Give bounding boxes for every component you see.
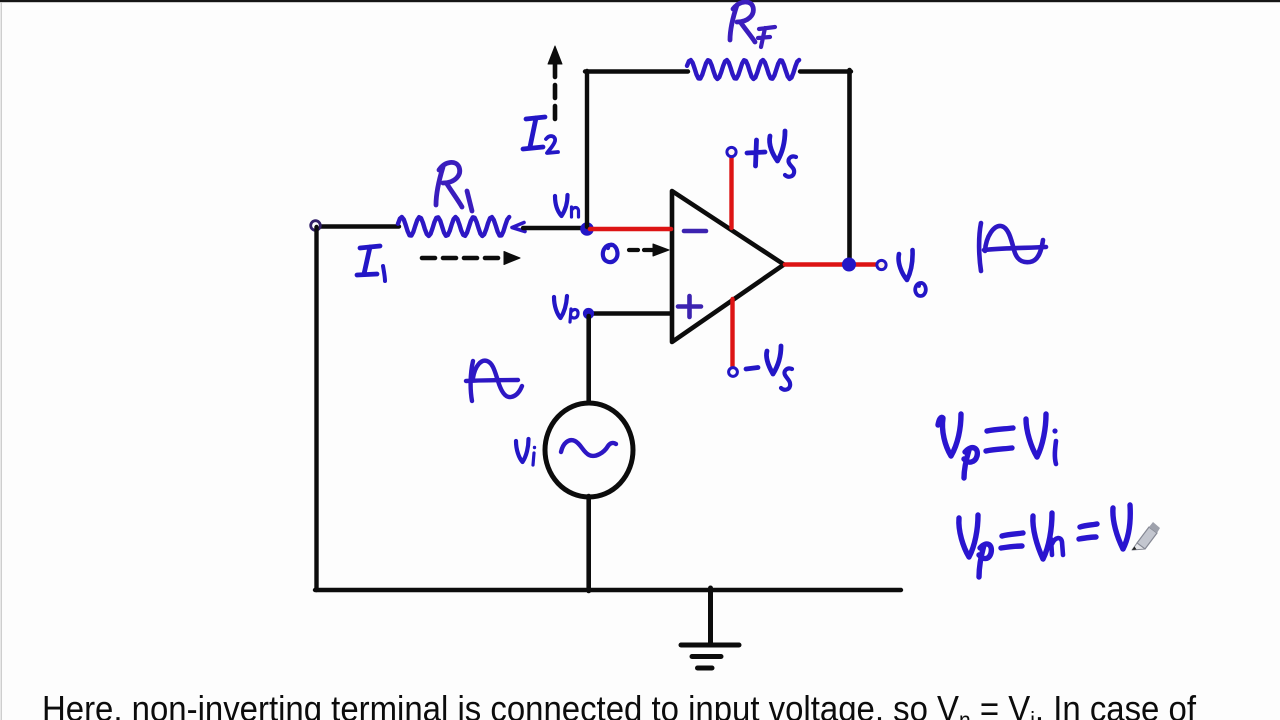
- top frame edge: [0, 0, 1280, 2]
- wire: left vertical rail: [314, 227, 318, 590]
- node Vo (solid junction dot): [842, 258, 856, 272]
- wire: R1 to node Vn: [523, 226, 585, 230]
- resistor R1 (hand-drawn squiggle): [398, 217, 509, 236]
- wire: Vn up to feedback: [585, 71, 589, 227]
- terminal Vo (open circle): [877, 260, 886, 269]
- input waveform sketch (near Vp): [466, 361, 522, 401]
- supply +Vs red lead: [729, 157, 733, 228]
- pen cursor: [1132, 522, 1160, 550]
- op-amp non-inverting input marker (plus): [678, 296, 701, 317]
- wire: red output from apex: [785, 262, 876, 267]
- ground: [681, 645, 739, 668]
- wire: Vp to non-inverting input (black): [590, 311, 671, 316]
- label -Vs: [746, 346, 792, 390]
- terminal +Vs (open circle): [727, 147, 736, 156]
- wire: right vertical down to output node: [847, 70, 852, 262]
- node A (left input terminal, open circle): [311, 221, 321, 231]
- wire: red Vn to inverting input: [590, 227, 671, 232]
- label Vp: [554, 296, 578, 322]
- wire: bottom rail: [315, 588, 901, 592]
- wire: RF to right vertical: [800, 69, 851, 73]
- virtual-zero label O: [603, 245, 618, 262]
- node Vp (solid junction dot): [583, 308, 594, 319]
- dashed current arrow I2 (upward): [548, 46, 562, 119]
- wire: feedback top left segment: [585, 69, 688, 73]
- label I1: [357, 246, 385, 281]
- resistor RF (hand-drawn squiggle): [687, 60, 799, 79]
- wire: left node to R1: [319, 224, 399, 228]
- terminal -Vs (open circle): [729, 368, 738, 377]
- ground stem: [708, 588, 713, 645]
- node Vn (solid junction dot): [580, 222, 594, 236]
- label Vo: [899, 250, 926, 296]
- wire: source bottom to ground rail: [586, 496, 591, 591]
- output waveform sketch (right): [979, 223, 1046, 271]
- label RF: [730, 2, 775, 47]
- R1 end arrowhead (blue, pointing left): [512, 223, 525, 232]
- dashed current arrow I1: [422, 252, 520, 265]
- left frame edge: [1, 2, 2, 720]
- equation Vp = Vn = V: [959, 505, 1130, 577]
- label I2: [523, 117, 558, 153]
- dashed arrow into inverting input: [629, 244, 669, 256]
- svg-text:Here, non-inverting terminal i: Here, non-inverting terminal is connecte…: [42, 688, 1197, 720]
- label R1: [436, 162, 472, 211]
- label Vi: [516, 439, 536, 465]
- op-amp inverting input marker (minus): [684, 229, 706, 234]
- op-amp U1 (triangle): [672, 191, 784, 342]
- AC tilde inside source: [561, 440, 616, 456]
- equation Vp = Vi: [938, 414, 1058, 478]
- source Vi (AC source circle): [545, 403, 633, 497]
- wire: Vp down to source: [586, 316, 591, 404]
- label +Vs: [747, 131, 796, 177]
- supply -Vs red lead: [730, 299, 734, 366]
- label Vn: [555, 195, 579, 217]
